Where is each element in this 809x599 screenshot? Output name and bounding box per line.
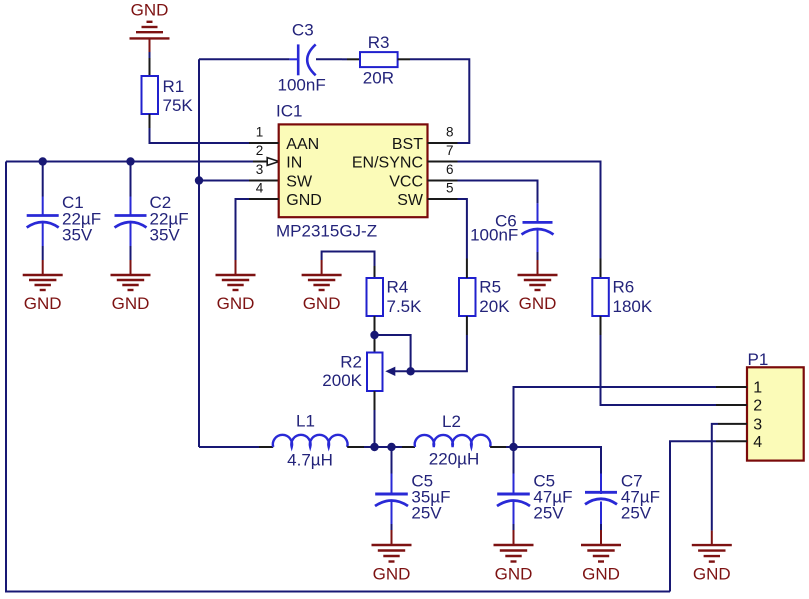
- capacitor C7: [585, 472, 660, 525]
- svg-text:R3: R3: [368, 33, 390, 52]
- wire R6 bottom to P1 pin2: [600, 316, 602, 335]
- pin 7 EN/SYNC: [352, 143, 458, 171]
- svg-text:20R: 20R: [363, 68, 394, 87]
- wire SW top to C3: [199, 58, 289, 60]
- wire bottom rail up to P1 pin4: [670, 441, 716, 591]
- svg-text:3: 3: [753, 416, 762, 433]
- svg-text:MP2315GJ-Z: MP2315GJ-Z: [276, 221, 377, 240]
- svg-text:IN: IN: [286, 154, 302, 171]
- resistor R3: [360, 33, 398, 87]
- potentiometer R2 200K: [322, 352, 395, 391]
- wire L2 right to junction: [506, 446, 514, 448]
- svg-text:200K: 200K: [322, 371, 362, 390]
- wire wiper to R5: [411, 335, 467, 371]
- svg-text:7.5K: 7.5K: [387, 297, 423, 316]
- ground GND under P1: [692, 531, 732, 584]
- wire left rail down: [5, 162, 7, 592]
- svg-text:GND: GND: [693, 565, 731, 584]
- svg-text:GND: GND: [286, 192, 322, 209]
- pin 1 P1: [716, 380, 762, 397]
- svg-text:R2: R2: [340, 352, 362, 371]
- wire R4 bottom to R2: [374, 316, 376, 353]
- resistor R6: [592, 278, 653, 317]
- wire pin4 to GND: [236, 199, 250, 260]
- svg-text:GND: GND: [303, 294, 341, 313]
- pin 1 AAN: [249, 125, 319, 153]
- junction R2 bottom node: [370, 443, 378, 451]
- svg-text:35V: 35V: [62, 225, 93, 244]
- resistor R4: [367, 278, 423, 317]
- wire C5a to GND: [391, 524, 393, 530]
- inductor L1: [199, 412, 365, 470]
- ground GND under C6: [518, 260, 558, 313]
- wire C5b to GND: [513, 524, 515, 530]
- svg-text:L1: L1: [296, 412, 315, 431]
- wire pin5 to R5: [458, 199, 467, 259]
- svg-text:100nF: 100nF: [470, 226, 518, 245]
- ground GND under C1: [23, 260, 63, 313]
- svg-text:SW: SW: [286, 173, 313, 190]
- svg-text:BST: BST: [392, 136, 423, 153]
- capacitor C5 (35uF): [375, 472, 450, 525]
- capacitor C5 (47uF): [497, 472, 572, 525]
- wire C5a branch: [391, 447, 393, 474]
- svg-text:8: 8: [446, 125, 454, 140]
- svg-text:AAN: AAN: [286, 136, 319, 153]
- ground GND pin4: [216, 260, 256, 313]
- capacitor C6: [470, 203, 553, 252]
- capacitor C1: [27, 193, 101, 246]
- capacitor C3: [278, 20, 326, 94]
- wire to C7 branch: [514, 447, 602, 474]
- wire wiper loop: [375, 335, 411, 371]
- wire bottom rail: [5, 591, 670, 593]
- svg-text:75K: 75K: [163, 96, 194, 115]
- capacitor C2: [115, 193, 189, 246]
- junction SW/pin3: [195, 176, 203, 184]
- ground GND under C5a: [372, 530, 412, 584]
- wire C5b branch: [513, 447, 515, 474]
- wire pin3: [199, 180, 249, 182]
- node IN input arrow pin2: [267, 158, 279, 166]
- svg-text:GND: GND: [112, 294, 150, 313]
- svg-text:2: 2: [753, 398, 762, 415]
- svg-text:EN/SYNC: EN/SYNC: [352, 154, 423, 171]
- svg-text:4: 4: [753, 434, 762, 451]
- wire C7 to GND: [600, 524, 602, 530]
- ground GND under C7: [581, 530, 621, 584]
- junction C1/IN: [39, 157, 47, 165]
- svg-text:180K: 180K: [613, 297, 653, 316]
- pin 8 BST: [392, 125, 458, 153]
- svg-text:4.7µH: 4.7µH: [287, 451, 333, 470]
- wire SW vertical (C3 / pin3 / L1): [198, 59, 200, 447]
- resistor R1: [142, 76, 194, 115]
- wire IN to C2: [130, 162, 132, 197]
- svg-text:GND: GND: [373, 565, 411, 584]
- ground GND top (inverted): [130, 1, 170, 53]
- wire R5 bottom: [466, 316, 468, 335]
- svg-text:P1: P1: [748, 350, 769, 369]
- svg-text:25V: 25V: [533, 504, 564, 523]
- svg-text:7: 7: [446, 143, 454, 158]
- svg-text:GND: GND: [495, 565, 533, 584]
- pin 3 SW: [256, 162, 313, 190]
- svg-text:4: 4: [256, 181, 264, 196]
- wire R1 to pin 1: [149, 114, 151, 128]
- junction wiper node: [406, 367, 414, 375]
- svg-text:6: 6: [446, 162, 454, 177]
- svg-text:GND: GND: [24, 294, 62, 313]
- svg-text:L2: L2: [442, 412, 461, 431]
- svg-text:GND: GND: [519, 294, 557, 313]
- junction C2/IN: [126, 157, 134, 165]
- svg-text:C3: C3: [292, 20, 314, 39]
- pin 4 P1: [716, 434, 762, 451]
- svg-text:25V: 25V: [621, 504, 652, 523]
- wire P1 pin3 to GND: [712, 424, 718, 531]
- svg-text:35V: 35V: [150, 225, 181, 244]
- svg-text:GND: GND: [582, 565, 620, 584]
- wire C6 to GND: [537, 252, 539, 260]
- inductor L2: [402, 412, 506, 469]
- resistor R5: [459, 278, 510, 317]
- pin 4 GND: [249, 181, 322, 209]
- svg-text:R6: R6: [613, 278, 635, 297]
- svg-text:100nF: 100nF: [278, 76, 326, 95]
- wire IN bus: [6, 161, 253, 163]
- svg-text:2: 2: [256, 143, 264, 158]
- pin 3 P1: [718, 416, 762, 433]
- junction C5a node: [387, 443, 395, 451]
- wire R3 to pin 8 (BST): [398, 58, 410, 60]
- wire IN to C1: [42, 162, 44, 197]
- ground GND under C5b: [494, 530, 534, 584]
- wire C3 to R3: [316, 58, 342, 60]
- svg-text:GND: GND: [131, 1, 169, 20]
- svg-text:5: 5: [446, 181, 454, 196]
- svg-text:20K: 20K: [479, 297, 510, 316]
- wire pin6 to C6: [458, 181, 538, 204]
- svg-text:R4: R4: [387, 278, 409, 297]
- svg-text:IC1: IC1: [276, 101, 302, 120]
- svg-text:1: 1: [256, 125, 264, 140]
- svg-text:25V: 25V: [411, 504, 442, 523]
- ground GND under C2: [111, 260, 151, 313]
- wire L2 node to P1 pin1: [514, 387, 717, 447]
- connector P1: [747, 350, 804, 461]
- wire L1 to L2: [364, 446, 406, 448]
- wire pin7 to R6: [458, 162, 601, 259]
- svg-text:VCC: VCC: [389, 173, 423, 190]
- wire wiper arrow line: [394, 370, 411, 372]
- svg-text:3: 3: [256, 162, 264, 177]
- svg-text:GND: GND: [217, 294, 255, 313]
- wire GND to R1: [149, 52, 151, 58]
- wire C1 to GND: [42, 246, 44, 260]
- pin 6 VCC: [389, 162, 457, 190]
- junction L2 output node: [509, 443, 517, 451]
- pin 5 SW: [397, 181, 457, 209]
- wire R4 top to GND: [374, 266, 376, 278]
- svg-text:1: 1: [753, 380, 762, 397]
- svg-text:220µH: 220µH: [429, 450, 479, 469]
- svg-text:R5: R5: [479, 278, 501, 297]
- pin 2 IN: [256, 143, 303, 171]
- IC IC1 MP2315GJ-Z body: [276, 101, 428, 240]
- pin 2 P1: [716, 398, 762, 415]
- ground GND near R4: [302, 260, 342, 313]
- junction R4/R2 wiper branch: [370, 331, 378, 339]
- svg-text:R1: R1: [163, 77, 185, 96]
- svg-text:SW: SW: [397, 192, 424, 209]
- wire R2 bottom to L1 node: [374, 391, 376, 410]
- wire C2 to GND: [130, 246, 132, 260]
